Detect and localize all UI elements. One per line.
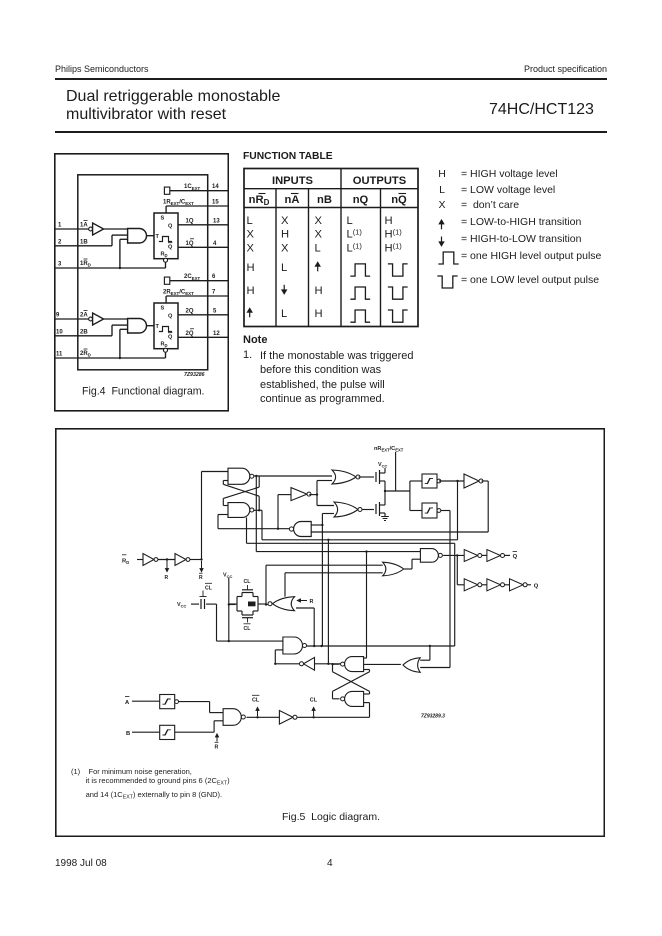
svg-text:10: 10 — [56, 329, 63, 335]
svg-text:2A: 2A — [80, 313, 88, 319]
svg-text:14: 14 — [212, 184, 219, 190]
svg-text:L: L — [315, 243, 321, 255]
svg-text:RD: RD — [122, 559, 129, 566]
svg-text:2REXT/CEXT: 2REXT/CEXT — [163, 290, 194, 297]
svg-text:R: R — [215, 745, 219, 751]
svg-text:INPUTS: INPUTS — [272, 175, 314, 187]
svg-text:nQ: nQ — [391, 194, 407, 206]
svg-text:nA: nA — [285, 194, 300, 206]
svg-text:VCC: VCC — [223, 573, 232, 580]
svg-text:Q: Q — [168, 224, 173, 230]
svg-text:nRD: nRD — [249, 194, 270, 207]
svg-text:13: 13 — [213, 218, 220, 224]
svg-text:1Q: 1Q — [186, 218, 194, 224]
svg-text:VCC: VCC — [378, 462, 387, 469]
svg-text:VCC: VCC — [177, 602, 186, 609]
svg-text:1CEXT: 1CEXT — [184, 184, 201, 191]
svg-text:H: H — [247, 262, 255, 274]
svg-text:2CEXT: 2CEXT — [184, 274, 201, 281]
svg-text:7Z93286: 7Z93286 — [184, 372, 205, 378]
svg-text:S: S — [161, 216, 165, 222]
svg-text:Q: Q — [168, 245, 173, 251]
svg-text:H: H — [315, 285, 323, 297]
svg-text:12: 12 — [213, 331, 220, 337]
svg-text:X: X — [315, 215, 323, 227]
svg-text:RD: RD — [161, 252, 168, 259]
svg-text:2B: 2B — [80, 329, 88, 335]
svg-text:OUTPUTS: OUTPUTS — [353, 175, 407, 187]
svg-text:2: 2 — [58, 239, 62, 245]
svg-text:1: 1 — [58, 223, 62, 229]
svg-text:R: R — [165, 575, 169, 581]
svg-text:CL: CL — [310, 698, 318, 704]
svg-text:RD: RD — [161, 342, 168, 349]
svg-text:L: L — [247, 215, 253, 227]
svg-text:5: 5 — [213, 308, 217, 314]
svg-text:H(1): H(1) — [385, 242, 403, 255]
svg-text:X: X — [247, 229, 255, 241]
svg-text:H: H — [281, 229, 289, 241]
svg-text:2Q: 2Q — [186, 308, 194, 314]
svg-text:Fig.4 Functional diagram.: Fig.4 Functional diagram. — [82, 386, 204, 398]
svg-text:7: 7 — [212, 290, 216, 296]
svg-text:H: H — [247, 285, 255, 297]
svg-text:9: 9 — [56, 313, 60, 319]
svg-text:nREXT/CEXT: nREXT/CEXT — [374, 446, 404, 452]
svg-text:L: L — [281, 308, 287, 320]
svg-text:T: T — [156, 324, 160, 330]
svg-text:Q: Q — [513, 554, 518, 560]
svg-text:H: H — [315, 308, 323, 320]
svg-text:nB: nB — [317, 194, 332, 206]
svg-text:1REXT/CEXT: 1REXT/CEXT — [163, 200, 194, 207]
svg-text:1Q: 1Q — [186, 241, 194, 247]
svg-text:Q: Q — [534, 584, 539, 590]
svg-text:T: T — [156, 234, 160, 240]
svg-text:3: 3 — [58, 262, 62, 268]
svg-text:6: 6 — [212, 274, 216, 280]
svg-text:nQ: nQ — [353, 194, 369, 206]
svg-text:Q: Q — [168, 314, 173, 320]
svg-text:L(1): L(1) — [347, 242, 363, 255]
svg-text:CL: CL — [205, 586, 213, 592]
svg-text:1RD: 1RD — [80, 261, 91, 268]
svg-text:X: X — [247, 243, 255, 255]
svg-text:H(1): H(1) — [385, 228, 403, 241]
svg-text:X: X — [315, 229, 323, 241]
svg-text:CL: CL — [244, 579, 252, 585]
svg-text:S: S — [161, 306, 165, 312]
svg-text:1A: 1A — [80, 223, 88, 229]
svg-text:R: R — [310, 599, 314, 605]
svg-text:Q: Q — [168, 335, 173, 341]
svg-text:H: H — [385, 215, 393, 227]
svg-text:15: 15 — [212, 200, 219, 206]
svg-text:X: X — [281, 215, 289, 227]
svg-text:L(1): L(1) — [347, 228, 363, 241]
svg-text:1B: 1B — [80, 239, 88, 245]
svg-text:11: 11 — [56, 352, 63, 358]
svg-text:L: L — [281, 262, 287, 274]
svg-text:L: L — [347, 215, 353, 227]
svg-text:R: R — [199, 575, 203, 581]
svg-text:B: B — [126, 731, 130, 737]
svg-text:2RD: 2RD — [80, 351, 91, 358]
svg-text:2Q: 2Q — [186, 331, 194, 337]
svg-text:CL: CL — [252, 698, 260, 704]
svg-text:CL: CL — [244, 626, 252, 632]
svg-text:A: A — [125, 700, 130, 706]
svg-text:X: X — [281, 243, 289, 255]
svg-text:7Z93289.3: 7Z93289.3 — [421, 714, 445, 720]
svg-text:4: 4 — [213, 241, 217, 247]
